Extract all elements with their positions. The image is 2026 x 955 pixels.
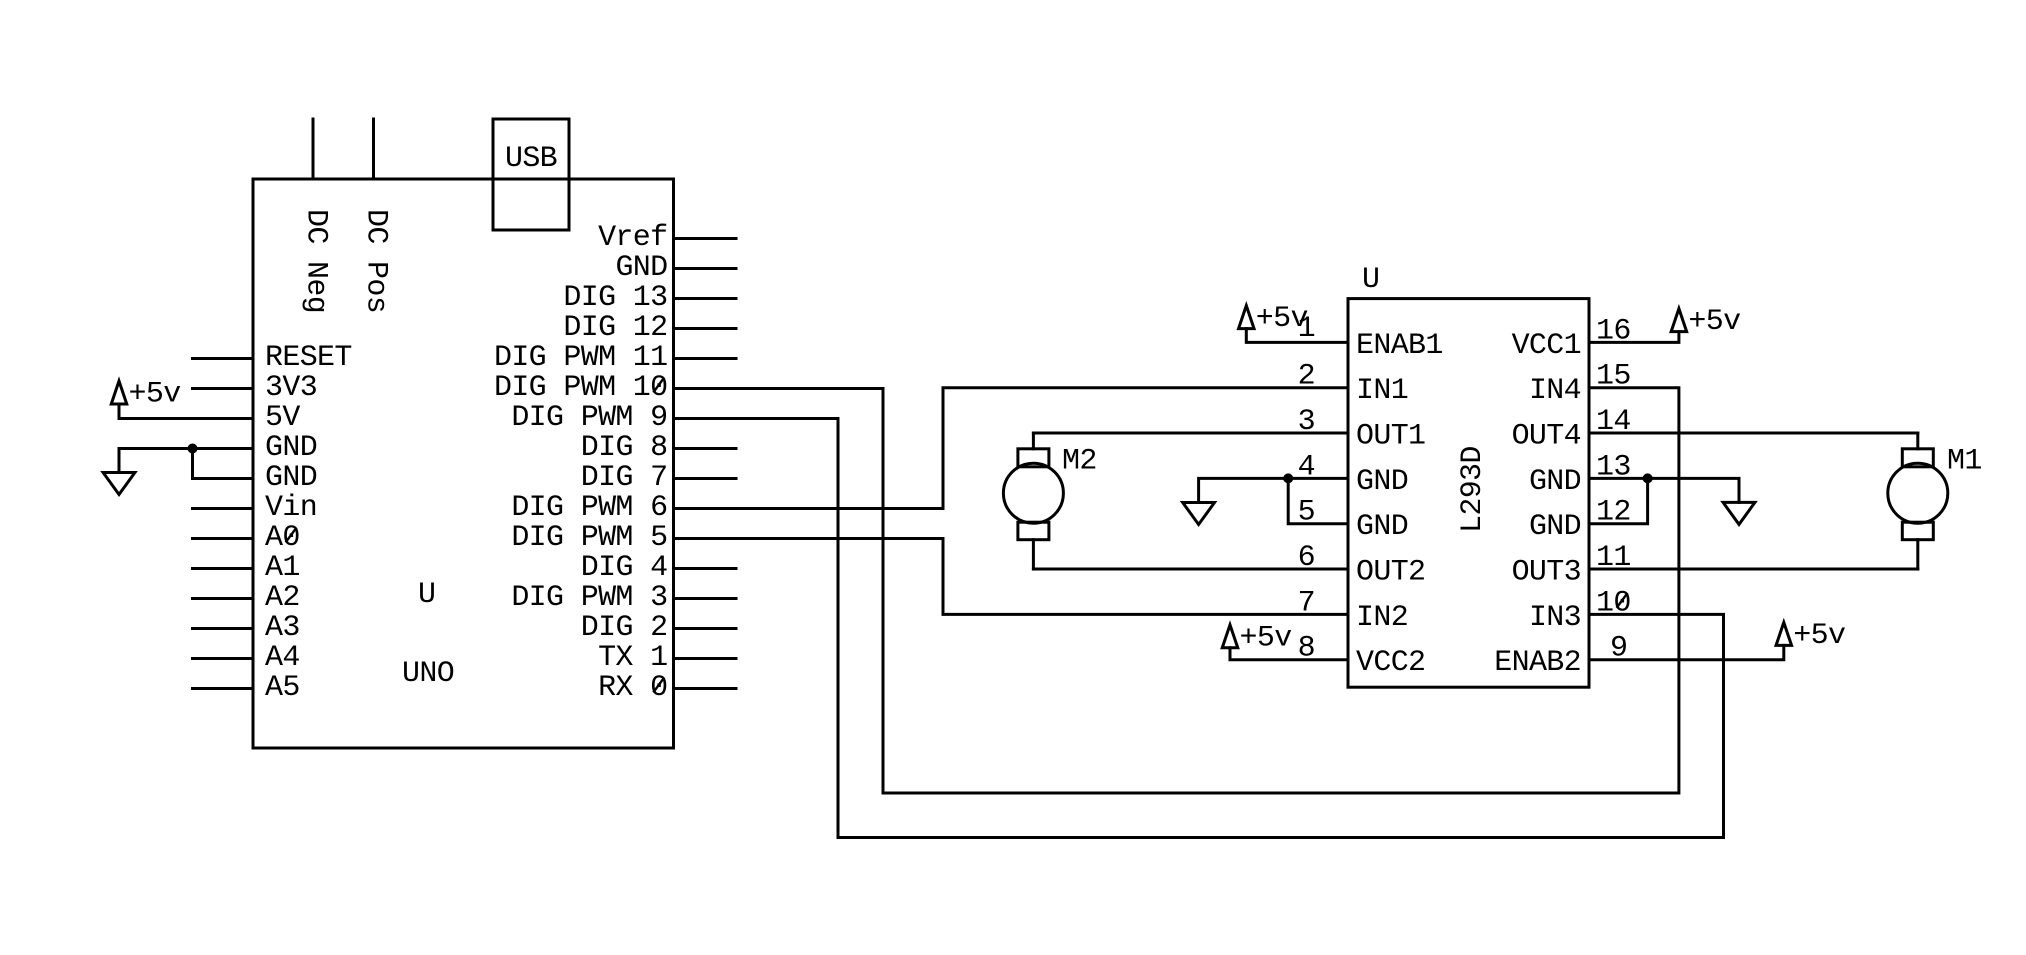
Arduino UNO U body bbox=[253, 179, 674, 748]
svg-text:15: 15 bbox=[1596, 360, 1631, 394]
pin A4 stub bbox=[193, 657, 254, 660]
motor M2 top terminal bbox=[1018, 449, 1049, 467]
svg-text:A0: A0 bbox=[265, 521, 300, 555]
wire VCC1 to +5v bbox=[1589, 332, 1679, 343]
wire DIG PWM 10 to IN4 bbox=[674, 388, 1679, 793]
svg-text:M2: M2 bbox=[1062, 445, 1097, 479]
svg-text:VCC2: VCC2 bbox=[1356, 646, 1425, 680]
pin A2 stub bbox=[193, 597, 254, 600]
svg-text:10: 10 bbox=[1596, 586, 1631, 620]
svg-text:5V: 5V bbox=[265, 401, 300, 435]
svg-text:2: 2 bbox=[1298, 360, 1315, 394]
svg-text:A5: A5 bbox=[265, 671, 300, 705]
svg-text:DC Pos: DC Pos bbox=[359, 209, 393, 313]
svg-text:DIG PWM 9: DIG PWM 9 bbox=[511, 401, 667, 435]
ground symbol (L293D left) bbox=[1183, 503, 1215, 525]
svg-text:U: U bbox=[1362, 263, 1379, 297]
pin A1 stub bbox=[193, 567, 254, 570]
pin DIG 4 stub bbox=[674, 567, 737, 570]
junction dot GND13/12 bbox=[1643, 473, 1653, 483]
motor M2 body bbox=[1003, 463, 1063, 523]
pin RESET stub bbox=[193, 357, 254, 360]
svg-text:IN2: IN2 bbox=[1356, 601, 1408, 635]
wire motor M2 bottom to OUT bbox=[1032, 540, 1035, 569]
pin A3 stub bbox=[193, 627, 254, 630]
slashed zero accent (DIG PWM 10) bbox=[654, 379, 664, 392]
+5V supply symbol (ENAB2) bbox=[1776, 622, 1792, 645]
svg-text:UNO: UNO bbox=[402, 657, 454, 691]
motor M1 bottom terminal bbox=[1902, 522, 1933, 540]
wire OUT1 to M2 bbox=[1033, 432, 1348, 435]
wire +5v to ENAB1 bbox=[1246, 329, 1348, 343]
wire GND4 to ground bbox=[1199, 478, 1348, 502]
svg-text:TX 1: TX 1 bbox=[598, 641, 667, 675]
pin RX 0 stub bbox=[674, 687, 737, 690]
svg-text:A4: A4 bbox=[265, 641, 300, 675]
svg-text:USB: USB bbox=[505, 142, 557, 176]
svg-text:RESET: RESET bbox=[265, 341, 352, 375]
svg-text:7: 7 bbox=[1298, 586, 1315, 620]
wire OUT to motor M2 top bbox=[1032, 433, 1035, 449]
pin DIG 7 stub bbox=[674, 477, 737, 480]
junction dot GND bbox=[188, 444, 198, 454]
svg-text:Vref: Vref bbox=[598, 221, 667, 255]
wire M2 to OUT2 bbox=[1033, 568, 1348, 571]
wire DIG PWM 6 to IN1 bbox=[674, 388, 1349, 509]
wire GND pins to ground bbox=[119, 449, 253, 473]
svg-text:DIG PWM 5: DIG PWM 5 bbox=[511, 521, 667, 555]
svg-text:IN4: IN4 bbox=[1529, 374, 1581, 408]
svg-text:DIG 8: DIG 8 bbox=[581, 431, 668, 465]
svg-text:DIG PWM 3: DIG PWM 3 bbox=[511, 581, 667, 615]
pin DIG 8 stub bbox=[674, 447, 737, 450]
svg-text:GND: GND bbox=[1356, 465, 1408, 499]
svg-text:GND: GND bbox=[615, 251, 667, 285]
pin DIG PWM 11 stub bbox=[674, 357, 737, 360]
wire OUT to motor M1 top bbox=[1916, 433, 1919, 449]
svg-text:GND: GND bbox=[265, 431, 317, 465]
svg-text:OUT2: OUT2 bbox=[1356, 556, 1425, 590]
pin Vref stub bbox=[674, 237, 737, 240]
wire +5v to VCC2 bbox=[1230, 648, 1348, 660]
svg-text:DIG 4: DIG 4 bbox=[581, 551, 668, 585]
svg-text:OUT4: OUT4 bbox=[1512, 420, 1581, 454]
+5V supply symbol (VCC1) bbox=[1671, 309, 1687, 332]
ground symbol (L293D right) bbox=[1723, 502, 1755, 524]
wire DIG PWM 9 to IN3 bbox=[674, 419, 1724, 838]
svg-text:+5v: +5v bbox=[1688, 305, 1740, 339]
pin Vin stub bbox=[193, 507, 254, 510]
svg-text:A3: A3 bbox=[265, 611, 300, 645]
svg-text:M1: M1 bbox=[1947, 445, 1982, 479]
svg-text:OUT1: OUT1 bbox=[1356, 420, 1425, 454]
svg-text:L293D: L293D bbox=[1456, 446, 1490, 533]
svg-text:+5v: +5v bbox=[129, 378, 181, 412]
motor M2 bottom terminal bbox=[1018, 522, 1049, 540]
svg-text:DIG 7: DIG 7 bbox=[581, 461, 668, 495]
wire OUT4 to M1 bbox=[1589, 432, 1918, 435]
+5V supply symbol (5V pin) bbox=[111, 381, 127, 404]
svg-text:3V3: 3V3 bbox=[265, 371, 317, 405]
svg-text:GND: GND bbox=[265, 461, 317, 495]
USB connector box bbox=[493, 119, 569, 230]
slashed zero accent (RX 0) bbox=[654, 679, 664, 692]
slashed zero accent (A0) bbox=[286, 529, 296, 542]
motor M1 top terminal bbox=[1902, 449, 1933, 467]
pin DIG 2 stub bbox=[674, 627, 737, 630]
svg-text:Vin: Vin bbox=[265, 491, 317, 525]
junction dot GND4/5 bbox=[1283, 473, 1293, 483]
pin A5 stub bbox=[193, 687, 254, 690]
pin DIG PWM 3 stub bbox=[674, 597, 737, 600]
svg-text:GND: GND bbox=[1529, 510, 1581, 544]
pin 3V3 stub bbox=[193, 387, 254, 390]
wire motor M1 bottom to OUT bbox=[1916, 540, 1919, 569]
svg-text:DIG PWM 10: DIG PWM 10 bbox=[494, 371, 668, 405]
+5V supply symbol (VCC2) bbox=[1222, 625, 1238, 648]
svg-text:ENAB2: ENAB2 bbox=[1494, 646, 1581, 680]
svg-text:DIG 12: DIG 12 bbox=[563, 311, 667, 345]
svg-text:+5v: +5v bbox=[1256, 302, 1308, 336]
svg-text:DIG PWM 6: DIG PWM 6 bbox=[511, 491, 667, 525]
wire DIG PWM 5 to IN2 bbox=[674, 539, 1349, 615]
svg-text:A1: A1 bbox=[265, 551, 300, 585]
svg-text:ENAB1: ENAB1 bbox=[1356, 329, 1443, 363]
svg-text:+5v: +5v bbox=[1793, 619, 1845, 653]
pin DIG 13 stub bbox=[674, 297, 737, 300]
+5V supply symbol (ENAB1) bbox=[1239, 306, 1255, 329]
motor M1 body bbox=[1888, 463, 1948, 523]
wire M1 to OUT3 bbox=[1589, 568, 1918, 571]
wire ENAB2 to +5v bbox=[1589, 645, 1784, 659]
svg-text:DIG 13: DIG 13 bbox=[563, 281, 667, 315]
svg-text:IN3: IN3 bbox=[1529, 601, 1581, 635]
svg-text:GND: GND bbox=[1356, 510, 1408, 544]
svg-text:DIG PWM 11: DIG PWM 11 bbox=[494, 341, 668, 375]
slashed zero accent (pin 10) bbox=[1617, 594, 1627, 607]
wire +5v to 5V pin bbox=[119, 404, 253, 419]
svg-text:DIG 2: DIG 2 bbox=[581, 611, 668, 645]
wire GND12 branch bbox=[1589, 478, 1648, 523]
wire GND2 branch bbox=[193, 449, 254, 479]
svg-text:U: U bbox=[418, 578, 435, 612]
ground symbol (Arduino) bbox=[103, 473, 135, 495]
L293D U body bbox=[1348, 299, 1589, 688]
pin A0 stub bbox=[193, 537, 254, 540]
svg-text:VCC1: VCC1 bbox=[1512, 329, 1581, 363]
DC Pos pin stub bbox=[372, 119, 375, 179]
DC Neg pin stub bbox=[312, 119, 315, 179]
pin DIG 12 stub bbox=[674, 327, 737, 330]
svg-text:IN1: IN1 bbox=[1356, 374, 1408, 408]
svg-text:A2: A2 bbox=[265, 581, 300, 615]
svg-text:OUT3: OUT3 bbox=[1512, 556, 1581, 590]
pin TX 1 stub bbox=[674, 657, 737, 660]
wire GND13 to ground bbox=[1589, 478, 1739, 502]
svg-text:DC Neg: DC Neg bbox=[299, 209, 333, 313]
svg-text:GND: GND bbox=[1529, 465, 1581, 499]
pin GND stub bbox=[674, 267, 737, 270]
svg-text:+5v: +5v bbox=[1240, 621, 1292, 655]
wire GND5 branch bbox=[1288, 478, 1348, 523]
